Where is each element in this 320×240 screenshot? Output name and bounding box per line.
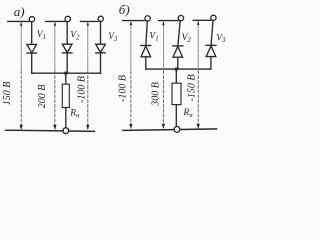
node junction dot on bus (circuit a)	[64, 72, 67, 75]
wire bus to resistor Rn (circuit b)	[175, 69, 177, 83]
wire terminal to diode V1 cathode (circuit b)	[146, 21, 147, 45]
wire terminal to diode V3 anode	[100, 21, 102, 44]
wire top input 1 (circuit b)	[123, 20, 145, 22]
svg-text:150 В: 150 В	[2, 82, 13, 106]
wire diode V1 cathode to bus	[31, 53, 33, 73]
svg-text:300 В: 300 В	[151, 82, 162, 107]
label -100 V	[77, 76, 88, 103]
wire diode V3 cathode to bus	[100, 53, 102, 73]
dimension line 200 V (circuit a input 2)	[54, 22, 56, 128]
wire top input 3 (circuit b)	[193, 19, 211, 21]
wire resistor Rn to output terminal (circuit a)	[65, 108, 67, 128]
label -150 V (circuit b)	[186, 75, 197, 102]
wire bus to resistor Rn (circuit a)	[65, 73, 67, 84]
wire terminal to diode V2 anode	[66, 22, 68, 45]
wire cathode bus (circuit a)	[32, 72, 101, 74]
terminal output (circuit a)	[63, 128, 69, 134]
label b)	[119, 2, 130, 17]
svg-text:-150 В: -150 В	[186, 75, 197, 102]
wire diode V2 cathode to bus	[66, 53, 68, 73]
label -100 V (circuit b)	[118, 75, 129, 102]
label V2 (circuit a)	[70, 31, 80, 42]
label V1 (circuit b)	[149, 32, 158, 43]
diode V2 (circuit b, cathode up)	[173, 46, 183, 57]
dimension line 300 V (circuit b input 2)	[162, 22, 164, 128]
label 150 V	[2, 82, 13, 106]
wire top input 3 (circuit a)	[81, 20, 99, 22]
wire terminal to diode V2 cathode (circuit b)	[178, 21, 180, 46]
wire diode V1 anode to bus (circuit b)	[145, 57, 147, 69]
label V3 (circuit a)	[108, 32, 118, 43]
diode V3 (circuit a, cathode down)	[96, 44, 106, 53]
svg-text:б): б)	[119, 2, 130, 17]
terminal input 2 (circuit b)	[178, 15, 183, 20]
wire diode V3 anode to bus (circuit b)	[210, 57, 212, 70]
svg-text:а): а)	[14, 4, 25, 19]
terminal input 1 (circuit b)	[145, 16, 150, 21]
terminal input 1 (circuit a)	[29, 17, 34, 22]
terminal input 2 (circuit a)	[65, 16, 70, 21]
wire top input 2 (circuit b)	[159, 20, 179, 22]
label V1 (circuit a)	[37, 30, 46, 41]
resistor Rn (circuit b)	[172, 83, 181, 104]
dimension line -100 V (circuit a input 3)	[87, 22, 89, 128]
label Rn (circuit a)	[69, 109, 80, 120]
wire bottom rail (circuit b)	[123, 129, 217, 131]
svg-text:-100 В: -100 В	[118, 75, 129, 102]
wire bottom rail (circuit a)	[6, 130, 95, 131]
label V3 (circuit b)	[216, 33, 226, 44]
wire terminal to diode V3 cathode (circuit b)	[211, 20, 213, 45]
label a)	[14, 4, 25, 19]
diode V3 (circuit b, cathode up)	[206, 45, 216, 56]
dimension line -150 V (circuit b input 3)	[197, 21, 199, 127]
wire resistor Rn to output terminal (circuit b)	[175, 105, 177, 127]
dimension line -100 V (circuit b input 1)	[130, 22, 132, 128]
wire terminal to diode V1 anode	[31, 22, 33, 45]
diode V1 (circuit a, cathode down)	[27, 44, 37, 53]
resistor Rn (circuit a)	[62, 84, 69, 107]
label 200 V	[37, 85, 48, 109]
wire diode V2 anode to bus (circuit b)	[177, 57, 179, 69]
svg-text:-100 В: -100 В	[77, 76, 88, 103]
diode V2 (circuit a, cathode down)	[62, 44, 72, 53]
label V2 (circuit b)	[182, 33, 192, 44]
svg-text:200 В: 200 В	[37, 85, 48, 109]
node junction dot on bus (circuit b)	[175, 67, 178, 70]
label Rn (circuit b)	[182, 108, 193, 119]
label 300 V (circuit b)	[151, 82, 162, 107]
wire top input 1 (circuit a)	[8, 20, 29, 22]
wire top input 2 (circuit a)	[46, 20, 65, 22]
terminal input 3 (circuit a)	[98, 16, 103, 21]
diode V1 (circuit b, cathode up)	[141, 46, 151, 57]
terminal output (circuit b)	[174, 126, 180, 132]
dimension line 150 V (circuit a input 1)	[20, 22, 22, 128]
terminal input 3 (circuit b)	[211, 15, 216, 20]
wire anode bus (circuit b)	[146, 68, 211, 70]
